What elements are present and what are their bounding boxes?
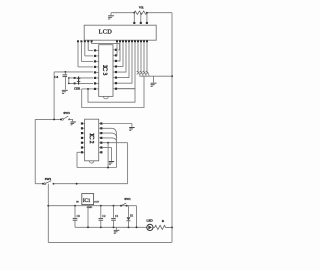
svg-text:IN: IN <box>76 201 79 203</box>
svg-text:SW3: SW3 <box>63 111 70 115</box>
svg-text:IC1: IC1 <box>83 199 91 204</box>
svg-text:CER: CER <box>74 86 81 90</box>
svg-text:C4: C4 <box>54 75 58 79</box>
svg-text:LED: LED <box>147 219 154 223</box>
svg-text:LCD: LCD <box>99 29 113 36</box>
svg-text:SW2: SW2 <box>45 177 52 181</box>
svg-text:VR: VR <box>139 5 145 9</box>
svg-text:SW1: SW1 <box>124 197 131 201</box>
svg-text:OUT: OUT <box>94 201 99 203</box>
